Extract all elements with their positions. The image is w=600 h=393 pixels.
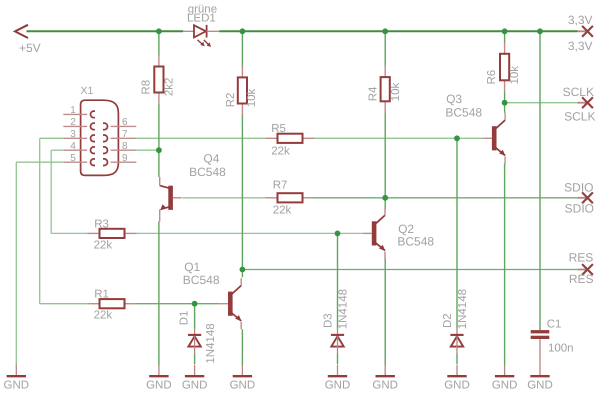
junction Q2 collector node xyxy=(382,195,388,201)
wire pin4 left xyxy=(51,149,63,151)
junction Q2 base node xyxy=(335,231,341,237)
net flag RES cross xyxy=(578,264,593,275)
net SDIO label upper xyxy=(564,180,593,194)
transistor Q1 name xyxy=(184,260,200,274)
net flag RES label lower xyxy=(569,272,594,286)
X1 pin 1 stub xyxy=(63,113,87,115)
svg-text:1N4148: 1N4148 xyxy=(338,289,350,329)
ground D3 xyxy=(325,365,351,392)
X1 pin 2 number xyxy=(70,117,76,128)
resistor R3 body xyxy=(88,229,137,238)
svg-text:R7: R7 xyxy=(273,179,288,191)
junction SCLK node xyxy=(502,100,508,106)
X1 pin 7 number xyxy=(122,129,128,140)
svg-text:SDIO: SDIO xyxy=(564,180,593,194)
svg-text:22k: 22k xyxy=(94,239,113,251)
X1 pin 2 socket xyxy=(91,123,96,130)
svg-text:22k: 22k xyxy=(273,204,292,216)
wire Q3 base node to D2 xyxy=(456,138,458,329)
resistor R5 name xyxy=(271,123,286,135)
ground Q1 emitter xyxy=(230,365,256,392)
svg-text:10k: 10k xyxy=(509,66,521,85)
svg-text:GND: GND xyxy=(372,380,398,392)
transistor Q4 emitter xyxy=(160,204,171,221)
diode D1 symbol xyxy=(188,329,201,354)
X1 pin 6 socket xyxy=(103,123,108,130)
wire SCLK node to Q3 collector xyxy=(504,103,506,113)
svg-text:22k: 22k xyxy=(271,146,290,158)
transistor Q3 base stub xyxy=(483,137,492,139)
net flag 3,3V cross xyxy=(578,26,593,37)
resistor R8 body xyxy=(154,55,163,105)
wire rail to R2 xyxy=(241,31,243,67)
svg-text:GND: GND xyxy=(4,380,30,392)
wire +5V rail left segment xyxy=(27,30,184,32)
LED1 triangle xyxy=(194,25,206,37)
net flag 3,3V label lower xyxy=(568,39,593,53)
wire RES row xyxy=(242,269,577,271)
transistor Q3 bar xyxy=(492,126,497,150)
svg-text:D1: D1 xyxy=(179,311,191,326)
wire rail to R4 xyxy=(384,31,386,67)
diode D2 value xyxy=(457,289,469,329)
resistor R6 value xyxy=(509,66,521,85)
net flag SDIO label lower xyxy=(565,202,594,216)
transistor Q4 bar xyxy=(168,186,173,210)
wire R1 row right (R1 to Q1 base) xyxy=(137,303,220,305)
wire pin5 left xyxy=(16,161,63,163)
X1 pin 4 stub xyxy=(63,149,87,151)
svg-text:RES: RES xyxy=(569,251,594,265)
wire D1 node down xyxy=(194,304,196,329)
diode D3 value xyxy=(338,289,350,329)
wire Q2 emitter to ground xyxy=(384,258,386,366)
wire rail to C1 xyxy=(539,31,541,330)
svg-text:3,3V: 3,3V xyxy=(568,13,593,27)
resistor R1 body xyxy=(88,299,137,308)
wire pin8 to node xyxy=(136,149,159,151)
svg-text:GND: GND xyxy=(492,380,518,392)
wire node to Q2 collector xyxy=(384,198,386,210)
resistor R3 name xyxy=(94,218,109,230)
resistor R5 body xyxy=(266,134,315,143)
wire 3,3V rail segment xyxy=(219,30,577,32)
junction Q1 base node xyxy=(192,301,198,307)
svg-text:9: 9 xyxy=(122,153,128,164)
wire R3 row left xyxy=(51,232,87,234)
svg-text:BC548: BC548 xyxy=(189,165,226,179)
svg-text:1N4148: 1N4148 xyxy=(457,289,469,329)
X1 pin 1 number xyxy=(70,105,76,116)
resistor R4 name xyxy=(367,86,379,101)
transistor Q3 collector xyxy=(495,113,506,130)
junction rail R8 xyxy=(156,28,162,34)
svg-text:Q1: Q1 xyxy=(184,260,200,274)
X1 pin 7 stub xyxy=(111,137,137,139)
junction Q1 collector node xyxy=(240,267,246,273)
resistor R2 value xyxy=(246,89,258,108)
ground Q4 emitter xyxy=(146,365,172,392)
svg-text:R3: R3 xyxy=(94,218,109,230)
diode D3 name xyxy=(323,313,335,328)
diode D1 value xyxy=(205,323,217,363)
svg-text:R2: R2 xyxy=(225,93,237,108)
svg-text:SCLK: SCLK xyxy=(564,109,595,123)
svg-text:R6: R6 xyxy=(486,70,498,85)
junction pin8 node xyxy=(156,147,162,153)
svg-text:GND: GND xyxy=(325,380,351,392)
resistor R6 name xyxy=(486,70,498,85)
svg-text:2: 2 xyxy=(70,117,76,128)
transistor Q1 emitter xyxy=(231,312,242,329)
svg-text:SDIO: SDIO xyxy=(565,202,594,216)
svg-text:R4: R4 xyxy=(367,86,379,101)
svg-text:3: 3 xyxy=(70,129,76,140)
LED1 light arrow 1 xyxy=(198,40,205,46)
transistor Q1 base stub xyxy=(219,303,228,305)
svg-text:D2: D2 xyxy=(442,313,454,328)
wire R6 to SCLK node xyxy=(504,92,506,103)
svg-text:4: 4 xyxy=(70,141,76,152)
wire R4 to Q2 collector node xyxy=(384,109,386,198)
wire rail to R6 xyxy=(504,31,506,43)
X1 pin 9 socket xyxy=(103,159,108,166)
svg-text:R1: R1 xyxy=(94,288,109,300)
svg-text:5: 5 xyxy=(70,153,76,164)
capacitor C1 name xyxy=(547,318,562,330)
wire R1 row left xyxy=(40,303,88,305)
svg-text:X1: X1 xyxy=(81,85,94,97)
net 3,3V label upper xyxy=(568,13,593,27)
wire D3 anode net xyxy=(337,354,339,365)
X1 pin 3 number xyxy=(70,129,76,140)
svg-text:1: 1 xyxy=(70,105,76,116)
wire pin3 column to R1 row xyxy=(39,138,41,303)
X1 pin 5 number xyxy=(70,153,76,164)
svg-text:1N4148: 1N4148 xyxy=(205,323,217,363)
transistor Q3 emitter xyxy=(495,147,506,164)
wire pin5 ground column xyxy=(15,162,17,365)
wire Q2 base node to D3 xyxy=(337,233,339,329)
+5V supply arrow xyxy=(15,25,28,38)
LED1 anode stub xyxy=(183,30,194,32)
X1 pin 5 stub xyxy=(63,161,87,163)
wire SCLK row xyxy=(505,102,578,104)
wire D2 anode net xyxy=(456,354,458,365)
transistor Q2 bar xyxy=(372,221,377,245)
LED1 light arrow 2 xyxy=(204,40,211,47)
transistor Q3 value xyxy=(445,106,482,120)
svg-text:R8: R8 xyxy=(141,80,153,95)
resistor R6 body xyxy=(500,42,509,92)
wire node to Q4 collector xyxy=(158,150,160,177)
LED1 cathode stub xyxy=(207,30,220,32)
svg-text:3,3V: 3,3V xyxy=(568,39,593,53)
wire R5 row left (pin7 to R5) xyxy=(136,137,267,139)
svg-text:D3: D3 xyxy=(323,313,335,328)
diode D3 symbol xyxy=(331,329,344,354)
svg-text:RES: RES xyxy=(569,272,594,286)
svg-text:2k2: 2k2 xyxy=(163,78,175,97)
svg-text:GND: GND xyxy=(182,380,208,392)
wire pin4 column to R3 row xyxy=(50,150,52,233)
transistor Q2 emitter xyxy=(374,242,385,259)
svg-text:GND: GND xyxy=(146,380,172,392)
svg-text:GND: GND xyxy=(444,380,470,392)
resistor R2 body xyxy=(238,66,247,116)
LED1 name LED1 xyxy=(187,13,216,25)
diode D1 name xyxy=(179,311,191,326)
X1 pin 7 socket xyxy=(103,135,108,142)
capacitor C1 plates xyxy=(531,330,550,339)
wire Q1 emitter to ground xyxy=(241,329,243,365)
junction rail C1 xyxy=(537,28,543,34)
transistor Q1 value xyxy=(183,273,220,287)
X1 pin 3 stub xyxy=(63,137,87,139)
X1 pin 1 socket xyxy=(91,111,96,118)
svg-text:Q3: Q3 xyxy=(446,92,462,106)
transistor Q4 collector xyxy=(160,177,171,188)
svg-text:SCLK: SCLK xyxy=(563,85,594,99)
svg-text:GND: GND xyxy=(230,380,256,392)
transistor Q2 value xyxy=(397,234,434,248)
transistor Q1 collector xyxy=(231,278,242,295)
svg-text:LED1: LED1 xyxy=(187,13,216,25)
net flag SDIO cross xyxy=(578,192,593,203)
wire node to Q1 collector xyxy=(241,270,243,278)
resistor R4 value xyxy=(390,83,402,102)
X1 pin 8 stub xyxy=(111,149,137,151)
capacitor C1 lower stub xyxy=(539,339,541,365)
connector X1 label xyxy=(81,85,94,97)
wire SDIO row left (Q4 base to R7) xyxy=(182,197,267,199)
wire Q3 emitter to ground xyxy=(504,163,506,365)
net flag SCLK label lower xyxy=(564,109,595,123)
wire pin3 left xyxy=(40,137,64,139)
resistor R7 body xyxy=(266,193,315,202)
svg-text:+5V: +5V xyxy=(19,41,41,55)
wire R8 to pin8 node xyxy=(158,104,160,150)
transistor Q4 value xyxy=(189,165,226,179)
svg-text:C1: C1 xyxy=(547,318,562,330)
svg-text:10k: 10k xyxy=(246,89,258,108)
transistor Q4 name xyxy=(203,152,219,166)
resistor R8 name xyxy=(141,80,153,95)
resistor R4 body xyxy=(381,65,390,113)
ground pin5 xyxy=(4,365,30,392)
ground D1 xyxy=(182,365,208,392)
svg-text:GND: GND xyxy=(527,380,553,392)
X1 pin 4 number xyxy=(70,141,76,152)
transistor Q2 base stub xyxy=(363,232,372,234)
junction rail R2 xyxy=(240,28,246,34)
svg-text:Q4: Q4 xyxy=(203,152,219,166)
resistor R5 value xyxy=(271,146,290,158)
resistor R8 value xyxy=(163,78,175,97)
LED1 name grüne xyxy=(188,3,217,15)
svg-text:10k: 10k xyxy=(390,83,402,102)
diode D2 symbol xyxy=(450,329,463,354)
svg-text:8: 8 xyxy=(122,141,128,152)
X1 pin 6 number xyxy=(122,117,128,128)
svg-text:7: 7 xyxy=(122,129,128,140)
ground D2 xyxy=(444,365,470,392)
resistor R1 name xyxy=(94,288,109,300)
wire R2 to Q1 collector node xyxy=(241,114,243,270)
resistor R2 name xyxy=(225,93,237,108)
capacitor C1 value xyxy=(548,342,574,354)
svg-text:6: 6 xyxy=(122,117,128,128)
X1 pin 6 stub xyxy=(111,125,137,127)
svg-text:100n: 100n xyxy=(548,342,574,354)
wire R3 row right (R3 to Q2 base) xyxy=(137,232,364,234)
net flag SCLK cross xyxy=(578,97,593,108)
ground C1 xyxy=(527,365,553,392)
ground Q3 emitter xyxy=(492,365,518,392)
net RES label upper xyxy=(569,251,594,265)
junction rail R4 xyxy=(382,28,388,34)
X1 pin 3 socket xyxy=(90,135,95,142)
resistor R3 value xyxy=(94,239,113,251)
diode D2 name xyxy=(442,313,454,328)
transistor Q2 collector xyxy=(374,208,385,225)
transistor Q1 bar xyxy=(228,292,233,316)
X1 pin 9 stub xyxy=(111,161,137,163)
resistor R7 name xyxy=(273,179,288,191)
transistor Q3 name xyxy=(446,92,462,106)
svg-text:R5: R5 xyxy=(271,123,286,135)
wire R5 row right (R5 to Q3 base) xyxy=(311,137,484,139)
wire rail to R8 xyxy=(158,31,160,55)
wire D1 anode net xyxy=(194,354,196,365)
transistor Q4 base stub xyxy=(173,197,182,199)
transistor Q2 name xyxy=(398,222,414,236)
junction rail R6 xyxy=(502,28,508,34)
X1 pin 8 socket xyxy=(103,147,108,154)
net SCLK label upper xyxy=(563,85,594,99)
wire Q4 emitter to ground xyxy=(158,221,160,365)
wire SDIO row right (R7 to SDIO flag) xyxy=(313,197,578,199)
ground Q2 emitter xyxy=(372,365,398,392)
svg-text:22k: 22k xyxy=(94,309,113,321)
junction Q3 base node xyxy=(454,135,460,141)
connector X1 outline xyxy=(81,100,119,175)
resistor R1 value xyxy=(94,309,113,321)
X1 pin 5 socket xyxy=(90,159,95,166)
+5V label xyxy=(19,41,41,55)
LED1 cathode bar xyxy=(206,25,208,38)
svg-text:BC548: BC548 xyxy=(445,106,482,120)
X1 pin 2 stub xyxy=(63,125,87,127)
svg-text:BC548: BC548 xyxy=(183,273,220,287)
X1 pin 9 number xyxy=(122,153,128,164)
resistor R7 value xyxy=(273,204,292,216)
X1 pin 8 number xyxy=(122,141,128,152)
svg-text:BC548: BC548 xyxy=(397,234,434,248)
X1 pin 4 socket xyxy=(90,147,95,154)
